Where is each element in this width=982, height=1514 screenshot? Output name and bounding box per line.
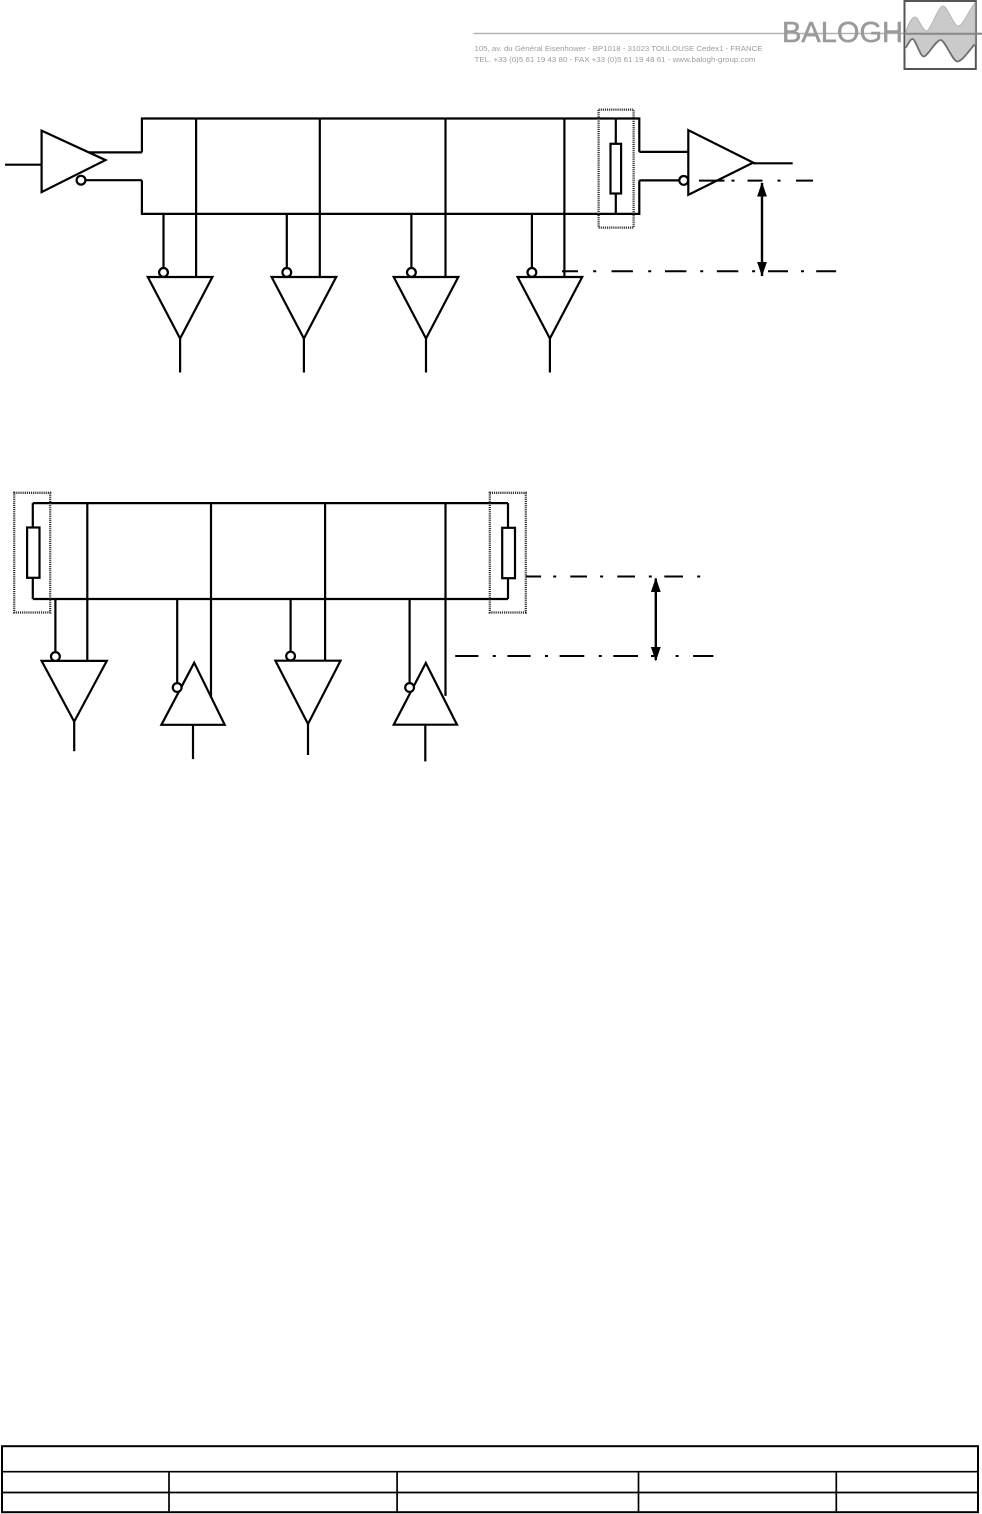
title block outer border [2, 1446, 978, 1512]
dash-dot reference line upper (diagram 2) [526, 576, 700, 578]
bus 1 divider / tap wire 2 [319, 119, 321, 278]
title block column line 2 [396, 1472, 398, 1513]
termination resistor RT1 [611, 144, 622, 194]
bus 2 bottom wire [33, 598, 508, 600]
end receiver G5 output wire [753, 162, 793, 164]
header rule [474, 33, 982, 35]
termination RT3 highlight box [490, 493, 526, 613]
DIAGRAM 2 [14, 493, 713, 762]
title block column line 3 [638, 1472, 640, 1513]
bus 1 outline [142, 119, 639, 214]
termination resistor RT1 bottom lead [615, 194, 617, 214]
receiver G7 output wire [192, 725, 194, 759]
receiver G1 output wire [179, 339, 181, 373]
termination resistor RT2 top lead [32, 503, 34, 527]
driver U1 inverting output wire [85, 179, 141, 181]
title block column line 1 [168, 1472, 170, 1513]
driver U1 inverting output bubble [77, 176, 86, 185]
receiver G6 [42, 661, 107, 722]
dimension arrow (diagram 2) [655, 579, 657, 661]
receiver G7 (up) [161, 663, 224, 725]
receiver G3 output wire [425, 339, 427, 373]
termination RT1 highlight box [599, 110, 634, 228]
termination resistor RT1 top lead [615, 119, 617, 144]
receiver G8 output wire [307, 724, 309, 755]
BALOGH logo wave lower stroke [906, 39, 975, 62]
title block row line 2 [2, 1492, 978, 1494]
tap stub wire 4 [531, 214, 533, 268]
header rule over logo [905, 33, 982, 35]
svg-text:BALOGH: BALOGH [782, 17, 903, 49]
end receiver G5 input bubble [679, 176, 688, 185]
receiver G7 input bubble [173, 683, 182, 692]
termination RT2 highlight box [14, 493, 50, 613]
tap stub wire 1 [162, 214, 164, 268]
tap stub wire 3 [410, 214, 412, 268]
tap stub wire 1 (diagram 2) [54, 599, 56, 652]
title block row line 1 [2, 1471, 978, 1473]
receiver G3 input bubble [407, 268, 416, 277]
dimension arrow (diagram 1) [761, 183, 763, 276]
receiver G1 input bubble [159, 268, 168, 277]
dash-dot reference line upper (diagram 1) [699, 180, 813, 182]
tap stub wire 2 [286, 214, 288, 268]
bus 2 divider / tap wire 3 [324, 503, 326, 661]
end receiver G5 [688, 130, 753, 195]
receiver G9 (up) [394, 663, 457, 725]
TITLE BLOCK TABLE [2, 1446, 978, 1512]
receiver G4 [518, 277, 583, 339]
receiver G3 [394, 277, 459, 339]
tap stub wire 3 (diagram 2) [290, 599, 292, 652]
receiver G8 [275, 661, 340, 724]
driver U1 input wire [5, 164, 42, 166]
dash-dot reference line lower (diagram 2) [455, 655, 713, 657]
termination resistor RT3 top lead [507, 503, 509, 528]
bus 1 divider / tap wire 4 [563, 119, 565, 278]
driver U1 [42, 131, 106, 193]
receiver G4 output wire [549, 339, 551, 373]
bus 2 divider / tap wire 1 [86, 503, 88, 661]
bus 1 divider / tap wire 3 [444, 119, 446, 278]
termination resistor RT3 bottom lead [507, 578, 509, 599]
termination resistor RT2 [27, 528, 39, 578]
end receiver G5 lower input wire [639, 179, 679, 181]
end receiver G5 upper input wire [639, 151, 688, 153]
receiver G2 input bubble [282, 268, 291, 277]
receiver G4 input bubble [528, 268, 537, 277]
receiver G6 output wire [73, 722, 75, 752]
receiver G9 output wire [424, 725, 426, 762]
BALOGH logo wave [906, 3, 976, 62]
svg-text:TEL. +33 (0)5 61 19 43 80 - FA: TEL. +33 (0)5 61 19 43 80 - FAX +33 (0)5… [475, 55, 756, 64]
driver U1 non-inverting output wire [89, 151, 142, 153]
receiver G9 input bubble [405, 683, 414, 692]
bus 2 divider / tap wire 2 [210, 503, 212, 697]
receiver G1 [148, 277, 213, 339]
bus 1 divider / tap wire 1 [195, 119, 197, 278]
receiver G8 input bubble [286, 652, 295, 661]
dash-dot reference line lower (diagram 1) [562, 270, 836, 272]
receiver G2 [272, 277, 337, 339]
BALOGH logo box [905, 1, 976, 69]
termination resistor RT3 [502, 528, 515, 578]
termination resistor RT2 bottom lead [32, 578, 34, 599]
svg-text:105, av. du Général Eisenhower: 105, av. du Général Eisenhower - BP1018 … [475, 44, 763, 53]
bus 2 divider / tap wire 4 [444, 503, 446, 696]
receiver G2 output wire [303, 339, 305, 373]
receiver G6 input bubble [51, 652, 60, 661]
DIAGRAM 1 [5, 110, 836, 373]
title block column line 4 [835, 1472, 837, 1513]
bus 2 top wire [33, 502, 508, 504]
tap stub wire 4 (diagram 2) [409, 599, 411, 683]
tap stub wire 2 (diagram 2) [176, 599, 178, 683]
